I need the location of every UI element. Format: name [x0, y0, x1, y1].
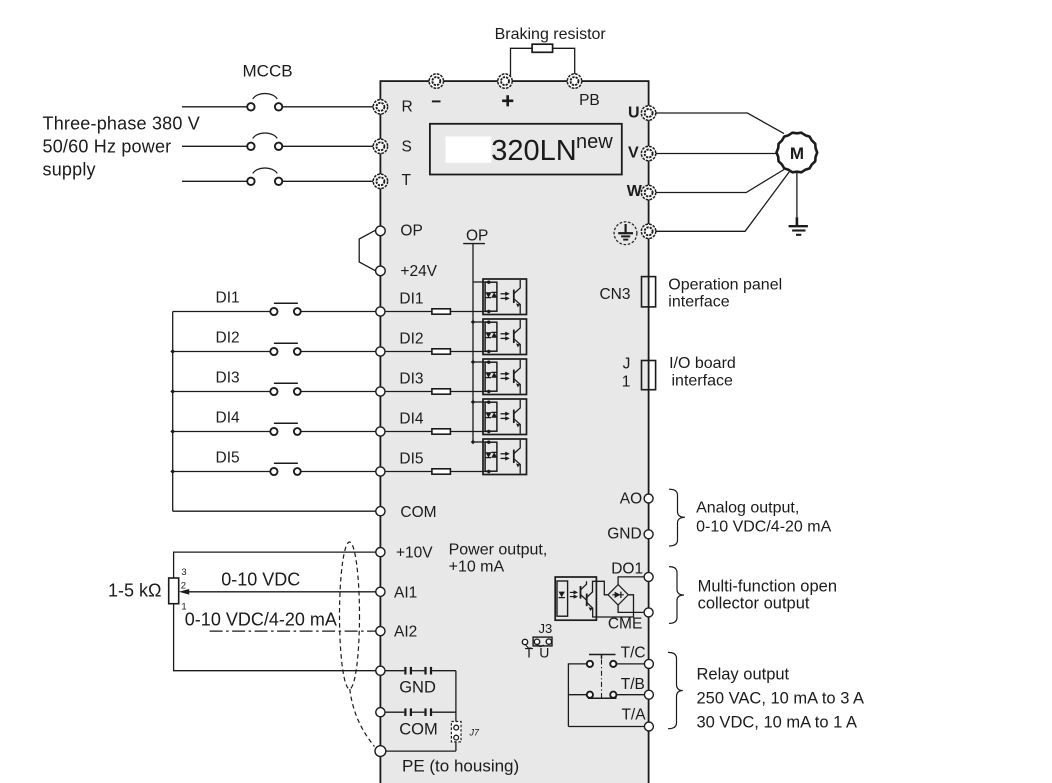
optocoupler DI3 — [483, 359, 527, 395]
circuit breaker MCCB pole R — [247, 94, 282, 111]
terminal DI3 — [376, 387, 385, 396]
wire breaker to terminal T — [282, 180, 374, 182]
wire bus to switch DI1 — [173, 311, 271, 313]
terminal DI4 — [376, 427, 385, 436]
svg-text:+10V: +10V — [396, 545, 433, 562]
junction DI bus — [170, 429, 175, 434]
switch DI1 — [270, 303, 300, 315]
svg-text:+24V: +24V — [400, 263, 437, 280]
svg-text:I/O board: I/O board — [669, 355, 736, 372]
junction OP bus — [471, 320, 475, 324]
wire terminal + to braking resistor — [511, 48, 533, 75]
svg-text:W: W — [627, 183, 643, 200]
wire resistor to optocoupler DI2 — [450, 351, 488, 353]
junction DI bus — [170, 349, 175, 354]
svg-text:DI1: DI1 — [216, 290, 240, 307]
wire AI1 to potentiometer wiper — [189, 591, 377, 593]
svg-text:MCCB: MCCB — [243, 62, 293, 81]
wire bus to switch DI5 — [173, 471, 271, 473]
wire OP bus stub to optocoupler DI5 — [473, 441, 489, 443]
label J1 — [622, 355, 631, 390]
terminal PB — [567, 74, 581, 88]
svg-text:J3: J3 — [539, 621, 553, 636]
terminal AI2 — [376, 627, 385, 636]
terminal S — [373, 139, 387, 153]
svg-text:AI1: AI1 — [394, 584, 417, 601]
label Three-phase supply — [43, 114, 201, 180]
terminal shield/GND — [376, 666, 385, 675]
label Power output +10 mA — [449, 542, 548, 576]
svg-text:T: T — [402, 172, 412, 189]
svg-text:supply: supply — [43, 160, 96, 180]
terminal CME — [644, 608, 653, 617]
svg-text:J7: J7 — [469, 728, 481, 738]
svg-text:Power output,: Power output, — [449, 542, 548, 559]
svg-text:GND: GND — [607, 526, 641, 543]
wire common to T/A — [568, 726, 644, 728]
svg-text:T: T — [525, 645, 534, 661]
wire terminal DI2 to resistor — [385, 351, 432, 353]
svg-text:DI1: DI1 — [399, 291, 423, 308]
wire potentiometer low to shield terminal — [174, 604, 376, 671]
label plus terminal — [502, 95, 513, 106]
svg-text:DI5: DI5 — [216, 450, 240, 467]
wire PE terminal row — [386, 750, 456, 752]
svg-text:0-10 VDC/4-20 mA: 0-10 VDC/4-20 mA — [185, 610, 337, 630]
wire terminal DI1 to resistor — [385, 311, 432, 313]
wire resistor to optocoupler DI1 — [450, 311, 488, 313]
optocoupler DI4 — [483, 399, 527, 435]
wire bus to terminal COM — [173, 510, 377, 512]
terminal COM internal — [376, 708, 385, 717]
switch DI4 — [270, 423, 300, 435]
svg-text:DI3: DI3 — [216, 370, 240, 387]
wire resistor to optocoupler DI4 — [450, 431, 488, 433]
terminal AI1 — [376, 587, 385, 596]
wire resistor to optocoupler DI5 — [450, 471, 488, 473]
terminal T — [373, 174, 387, 188]
switch DI5 — [270, 463, 300, 475]
wire switch to terminal DI3 — [301, 391, 376, 393]
terminal DI5 — [376, 467, 385, 476]
terminal +24V — [376, 266, 386, 276]
svg-text:V: V — [628, 144, 639, 161]
wire AI2 signal (dash-dot) — [210, 630, 376, 632]
label I/O board interface — [669, 355, 736, 389]
wire diode to terminal DO1 — [618, 577, 644, 585]
svg-text:320LN: 320LN — [491, 135, 576, 167]
wire V to motor — [655, 153, 777, 155]
svg-text:DI4: DI4 — [216, 410, 241, 427]
terminal OP — [376, 226, 386, 236]
svg-text:U: U — [628, 104, 640, 121]
wire +10V to potentiometer top — [174, 552, 376, 578]
terminal COM — [376, 507, 385, 516]
terminal plus — [498, 74, 512, 88]
svg-text:DI4: DI4 — [399, 411, 424, 428]
svg-text:2: 2 — [181, 581, 186, 592]
label Multi-function open collector output — [698, 577, 837, 612]
connector CN3 — [642, 277, 656, 307]
resistor DI2 input — [432, 349, 451, 354]
relay K1 contacts — [587, 655, 617, 699]
wire bus to switch DI3 — [173, 391, 271, 393]
wire bus to switch DI4 — [173, 431, 271, 433]
svg-text:T/B: T/B — [621, 676, 645, 693]
terminal AO — [644, 494, 653, 503]
terminal DO1 — [644, 572, 653, 581]
inverter drive body U1 — [380, 81, 648, 783]
terminal T/B — [644, 690, 653, 699]
terminal +10V — [376, 548, 385, 557]
brace analog output — [669, 489, 685, 546]
model label box 320LN new — [430, 124, 622, 175]
svg-text:U: U — [539, 645, 549, 661]
wire terminal DI5 to resistor — [385, 471, 432, 473]
capacitors COM row — [385, 708, 456, 716]
wire terminal DI4 to resistor — [385, 431, 432, 433]
optocoupler DI5 — [483, 439, 527, 475]
svg-text:OP: OP — [466, 228, 488, 245]
jumper J7 — [451, 722, 480, 742]
svg-text:COM: COM — [400, 504, 436, 521]
diode bridge DO1 — [608, 585, 628, 605]
protective earth symbol — [614, 222, 637, 245]
svg-text:30 VDC, 10 mA to 1 A: 30 VDC, 10 mA to 1 A — [697, 713, 858, 731]
wire switch to terminal DI2 — [301, 351, 376, 353]
wire relay to T/C — [617, 663, 645, 665]
svg-text:DI5: DI5 — [399, 451, 423, 468]
wire OP bus stub to optocoupler DI1 — [473, 281, 489, 283]
svg-text:M: M — [790, 144, 804, 163]
svg-text:PE (to housing): PE (to housing) — [402, 756, 519, 775]
svg-text:3: 3 — [181, 567, 186, 578]
resistor DI5 input — [432, 469, 451, 474]
svg-text:GND: GND — [399, 679, 436, 697]
terminal W — [641, 185, 655, 199]
wire DO1 opto emitter to diode — [596, 595, 633, 617]
svg-text:J: J — [623, 355, 631, 372]
svg-text:collector output: collector output — [698, 594, 810, 612]
wire W to motor — [655, 170, 784, 193]
svg-text:DI2: DI2 — [216, 330, 240, 347]
wire supply phase S — [182, 145, 247, 147]
wire DO1 opto collector to diode — [596, 581, 608, 595]
terminal DI1 — [376, 307, 385, 316]
svg-text:Braking resistor: Braking resistor — [495, 26, 607, 43]
wire breaker to terminal R — [282, 106, 374, 108]
label Operation panel interface — [668, 276, 782, 310]
switch DI2 — [270, 343, 300, 355]
svg-text:T/A: T/A — [621, 706, 646, 723]
capacitors GND row — [385, 667, 456, 675]
svg-text:DO1: DO1 — [611, 560, 643, 577]
wire supply phase T — [182, 180, 247, 182]
terminal U — [641, 106, 655, 120]
svg-text:CN3: CN3 — [599, 286, 630, 303]
potentiometer RP — [169, 567, 187, 612]
junction DI bus — [170, 469, 175, 474]
svg-text:AI2: AI2 — [394, 624, 417, 641]
svg-text:OP: OP — [400, 223, 422, 240]
svg-text:0-10 VDC: 0-10 VDC — [221, 569, 300, 589]
terminal T/A — [644, 722, 653, 731]
svg-text:+10 mA: +10 mA — [449, 558, 505, 575]
node OP internal bus — [463, 228, 488, 442]
terminal ground — [641, 224, 655, 238]
svg-text:R: R — [402, 99, 413, 116]
junction DI bus — [170, 389, 175, 394]
optocoupler DI2 — [483, 319, 527, 355]
svg-text:S: S — [402, 138, 412, 155]
circuit breaker MCCB pole S — [247, 133, 282, 150]
resistor DI4 input — [432, 429, 451, 434]
label Relay output ratings — [697, 666, 865, 732]
wire OP bus stub to optocoupler DI3 — [473, 361, 489, 363]
label Analog output — [696, 499, 831, 535]
wire capacitor common down to PE — [455, 671, 457, 751]
resistor DI3 input — [432, 389, 451, 394]
wire supply phase R — [182, 106, 247, 108]
terminal GND analog — [644, 530, 653, 539]
braking resistor — [532, 44, 553, 52]
svg-text:0-10 VDC/4-20 mA: 0-10 VDC/4-20 mA — [696, 519, 831, 536]
wire diode to terminal CME — [618, 605, 644, 612]
wire relay to T/B — [617, 694, 645, 696]
svg-text:250 VAC, 10 mA to 3 A: 250 VAC, 10 mA to 3 A — [697, 689, 865, 707]
svg-text:Relay output: Relay output — [697, 666, 790, 684]
wire OP bus stub to optocoupler DI2 — [473, 321, 489, 323]
wire OP bus stub to optocoupler DI4 — [473, 401, 489, 403]
svg-text:interface: interface — [668, 294, 729, 311]
switch DI3 — [270, 383, 300, 395]
terminal V — [641, 146, 655, 160]
wire terminal DI3 to resistor — [385, 391, 432, 393]
svg-text:Three-phase 380 V: Three-phase 380 V — [43, 114, 201, 134]
wire ground terminal to motor — [655, 172, 789, 232]
optocoupler DO1 — [555, 577, 596, 620]
svg-text:PB: PB — [579, 92, 600, 109]
svg-text:50/60 Hz power: 50/60 Hz power — [43, 137, 172, 157]
junction OP bus — [471, 360, 475, 364]
brace multi-function output — [669, 567, 684, 624]
wire switch to terminal DI1 — [301, 311, 376, 313]
wire switch to terminal DI5 — [301, 471, 376, 473]
wire switch to terminal DI4 — [301, 431, 376, 433]
wire breaker to terminal S — [282, 145, 374, 147]
svg-text:COM: COM — [399, 721, 438, 739]
svg-text:1: 1 — [622, 373, 631, 390]
svg-text:AO: AO — [620, 490, 642, 507]
svg-text:CME: CME — [608, 615, 642, 632]
svg-text:Operation panel: Operation panel — [668, 276, 782, 293]
svg-text:new: new — [576, 131, 613, 153]
shield drain to PE (dashed) — [350, 689, 375, 747]
junction OP bus — [471, 440, 475, 444]
terminal T/C — [644, 659, 653, 668]
connector J1 — [642, 361, 656, 390]
jumper J3 — [522, 621, 552, 661]
label minus terminal — [432, 100, 441, 102]
svg-text:Multi-function open: Multi-function open — [698, 577, 837, 595]
wire bus to switch DI2 — [173, 351, 271, 353]
terminal DI2 — [376, 347, 385, 356]
motor M — [777, 133, 818, 173]
junction OP bus — [471, 400, 475, 404]
wire OP to +24V jumper — [359, 229, 377, 271]
wire relay common — [568, 664, 586, 727]
terminal R — [373, 100, 387, 114]
terminal PE — [375, 746, 386, 757]
svg-text:DI2: DI2 — [399, 331, 423, 348]
svg-text:Analog output,: Analog output, — [696, 499, 799, 516]
motor ground — [789, 173, 808, 235]
wire U to motor — [655, 113, 784, 134]
brace relay output — [668, 652, 683, 728]
svg-text:1-5 kΩ: 1-5 kΩ — [108, 581, 161, 601]
optocoupler DI1 — [483, 279, 527, 315]
shielded cable ellipse — [340, 542, 360, 689]
circuit breaker MCCB pole T — [247, 168, 282, 185]
terminal minus — [429, 74, 443, 88]
wire braking resistor to terminal PB — [553, 48, 575, 75]
resistor DI1 input — [432, 309, 451, 314]
wire DI common bus (left) — [172, 312, 174, 512]
svg-text:DI3: DI3 — [399, 371, 423, 388]
svg-text:interface: interface — [672, 373, 733, 390]
svg-text:T/C: T/C — [621, 645, 646, 662]
wire resistor to optocoupler DI3 — [450, 391, 488, 393]
